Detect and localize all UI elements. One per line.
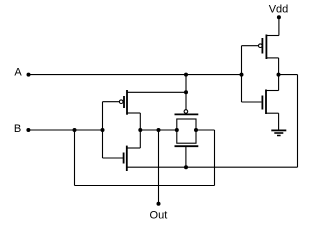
node B feedback junction (73, 128, 77, 132)
wire P2 gate stub (103, 101, 120, 103)
node B terminal dot (26, 128, 30, 132)
node A terminal dot (27, 73, 31, 77)
svg-text:A: A (14, 67, 22, 79)
nmos N1 (output inverter pull-down) (262, 90, 266, 115)
nmos N2 (pass pull-down) (124, 146, 127, 171)
wire P2 source to A (127, 91, 186, 93)
wire P1 drain horizontal (266, 57, 278, 59)
svg-text:B: B (14, 123, 21, 135)
node TG1 nmos gate junction (184, 165, 188, 169)
node TG1 right terminal (194, 128, 198, 132)
node Vdd terminal dot (277, 15, 281, 19)
transmission gate TG1 nmos gate plate (175, 145, 199, 147)
wire NOT-A down to N1 drain (278, 75, 280, 91)
node XOR output junction (138, 128, 142, 132)
wire P2 drain vertical (139, 113, 141, 130)
wire P1 drain vertical (278, 58, 280, 75)
wire N1 drain horizontal (266, 90, 279, 92)
node TG1 left terminal (175, 128, 179, 132)
node A / TG gate junction (184, 73, 188, 77)
node A / P2 source junction (184, 90, 188, 94)
wire U1 PMOS gate stub (242, 45, 259, 47)
wire B horizontal (28, 129, 103, 131)
transmission gate TG1 pmos gate plate (175, 113, 199, 115)
wire NOT-A right vertical (297, 75, 299, 168)
wire B gates vertical (102, 102, 104, 158)
wire N1 source to ground (278, 113, 280, 129)
node Out terminal dot (157, 202, 161, 206)
pmos P1 (output inverter pull-up) (259, 35, 267, 60)
transmission gate TG1 pmos gate bubble (184, 110, 188, 114)
wire N2 gate stub (103, 157, 124, 159)
wire A horizontal (28, 74, 242, 76)
node A / U1 gate junction (240, 73, 244, 77)
wire U1 NMOS gate stub (242, 101, 262, 103)
pmos P2 (pass pull-up) (119, 90, 127, 115)
wire N2 drain horizontal (127, 147, 141, 149)
wire Vdd vertical (278, 17, 280, 35)
wire N1 source horizontal (266, 112, 279, 114)
svg-text:Vdd: Vdd (269, 3, 289, 15)
wire TG right terminal (196, 129, 215, 131)
transmission gate TG1 body (177, 119, 196, 143)
wire B feedback down (74, 130, 76, 186)
wire NOT-A right (279, 74, 298, 76)
wire U1 gate vertical (241, 46, 243, 102)
wire NOT-A bottom horizontal (also N2 source lead) (127, 166, 298, 168)
wire Vdd to P1 source (266, 35, 279, 37)
wire B feedback bottom horizontal (75, 185, 215, 187)
wire TG1 nmos gate down to NOT-A (185, 146, 187, 167)
wire output node to TG left terminal (140, 129, 177, 131)
wire A down to transmission-gate PMOS gate (185, 75, 187, 110)
node NOT-A (inverter output) (277, 73, 281, 77)
svg-text:Out: Out (150, 209, 168, 221)
wire N2 drain vertical (139, 130, 141, 148)
wire Out vertical (158, 130, 160, 204)
ground (271, 130, 286, 135)
node B gate junction (101, 128, 105, 132)
wire B feedback up to TG right terminal (214, 130, 216, 186)
wire P2 drain horizontal (127, 112, 140, 114)
node Out tap junction (157, 128, 161, 132)
